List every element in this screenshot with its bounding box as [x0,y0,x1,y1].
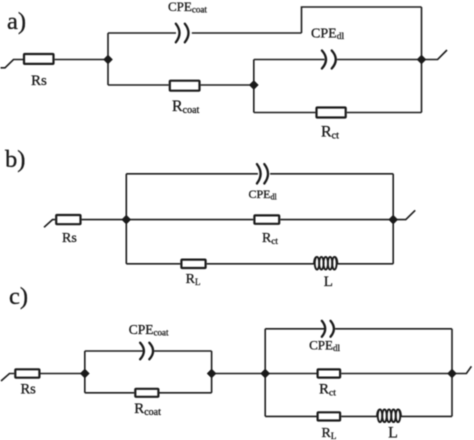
resistor R_ct (fig a) [317,108,346,118]
inductor L (fig c) [377,410,401,423]
node 3 junction (fig c) [261,369,270,378]
wire R_coat branch left [108,84,169,86]
wire rail node A vertical [107,33,109,85]
wire R_ct branch right (fig c) [341,373,452,375]
wire top branch left (fig a) [108,32,176,34]
resistor R_coat (fig c) [135,389,158,397]
wire node 2 to block 2 (fig c) [212,373,266,375]
output terminal tick (fig c) [452,366,471,373]
node B junction [417,55,426,64]
wire CPE_dl branch left (fig c) [265,328,324,330]
wire R_ct branch left (fig c) [265,373,316,375]
input terminal tick (fig a) [1,60,24,68]
wire bottom branch middle (fig b) [207,263,314,265]
svg-text:Rs: Rs [21,382,37,398]
CPE CPE_dl symbol (fig b) [257,164,268,183]
wire Rs to node (fig b) [82,219,127,221]
resistor R_L (fig b) [181,260,205,268]
svg-text:Rs: Rs [31,73,47,89]
figure label a) [7,8,26,35]
wire bottom branch right (fig b) [337,263,393,265]
wire left rail (fig b) [125,174,127,264]
svg-text:L: L [324,274,333,290]
label R_L (fig b) [186,272,201,287]
wire R_ct branch right (fig a) [347,112,422,114]
resistor Rs (fig c) [15,369,39,377]
output terminal tick (fig b) [393,210,415,219]
node 2 junction (fig c) [207,369,216,378]
wire inner top branch left (fig a) [254,59,325,61]
wire Rs to node A [55,59,108,61]
wire middle branch right (fig b) [280,219,393,221]
resistor Rs (fig b) [56,215,80,224]
CPE CPE_dl symbol (fig a) [322,51,336,69]
node C junction [249,80,258,89]
wire CPE_coat branch right (fig c) [154,350,211,352]
wire Rs to node 1 (fig c) [41,373,85,375]
wire left rail block 2 (fig c) [264,329,266,417]
wire left rail block 1 (fig c) [84,351,86,393]
resistor R_L (fig c) [318,412,341,420]
label R_ct (fig b) [262,231,278,246]
wire bottom branch left (fig b) [126,263,180,265]
output terminal tick (fig a) [422,50,448,60]
wire inner top branch right (fig a) [337,59,421,61]
CPE CPE_dl symbol (fig c) [322,321,334,337]
wire rail node C vertical [253,60,255,113]
wire step-up segment (fig a) [302,7,422,33]
svg-text:Rs: Rs [62,231,77,246]
label Rs (fig a) [31,73,47,89]
CPE CPE_coat symbol [176,24,189,43]
wire right rail block 1 (fig c) [211,351,213,393]
input terminal tick (fig c) [1,374,14,382]
label L (fig c) [388,425,398,440]
label Rs (fig c) [21,382,37,398]
CPE CPE_coat symbol (fig c) [140,343,153,360]
label CPE_dl (fig c) [309,337,340,353]
label CPE_dl (fig b) [249,187,278,202]
label R_coat (fig c) [134,401,161,418]
node right junction (fig b) [389,215,398,224]
label CPE_dl (fig a) [311,26,344,42]
wire R_coat branch left (fig c) [85,392,134,394]
wire top branch left (fig b) [126,173,258,175]
svg-text:b): b) [5,146,25,173]
wire inductor to right rail (fig c) [401,415,452,417]
svg-text:a): a) [7,8,26,35]
wire CPE_dl branch right (fig c) [335,328,452,330]
node left junction (fig b) [122,215,131,224]
input terminal tick (fig b) [44,220,55,228]
label R_L (fig c) [322,426,337,440]
wire R_L branch left (fig c) [265,415,316,417]
label R_ct (fig c) [319,382,336,399]
node A junction [103,55,112,64]
wire middle branch left (fig b) [126,219,253,221]
wire right rail (fig b) [392,174,394,264]
wire top branch right of CPE_coat [192,32,302,34]
wire top branch right (fig b) [270,173,393,175]
wire right rail block 2 (fig c) [451,329,453,417]
wire right rail (fig a) [421,7,423,113]
wire R_coat branch right [201,84,254,86]
label CPE_coat [168,0,207,14]
label R_ct (fig a) [321,123,339,141]
resistor R_coat [170,81,200,91]
svg-text:L: L [388,425,398,440]
inductor L (fig b) [314,257,337,270]
label L (fig b) [324,274,333,290]
label Rs (fig b) [62,231,77,246]
label R_coat [172,98,200,116]
node 1 junction (fig c) [80,369,89,378]
resistor Rs (fig a) [24,54,54,64]
figure label b) [5,146,25,173]
wire CPE_coat branch left (fig c) [85,350,143,352]
wire R_coat branch right (fig c) [160,392,212,394]
svg-text:c): c) [9,283,28,310]
label CPE_coat (fig c) [129,322,169,338]
resistor R_ct (fig c) [318,369,341,377]
resistor R_ct (fig b) [254,215,279,223]
wire R_L to inductor (fig c) [341,415,377,417]
node 4 junction (fig c) [447,369,456,378]
figure label c) [9,283,28,310]
wire R_ct branch left (fig a) [254,112,316,114]
